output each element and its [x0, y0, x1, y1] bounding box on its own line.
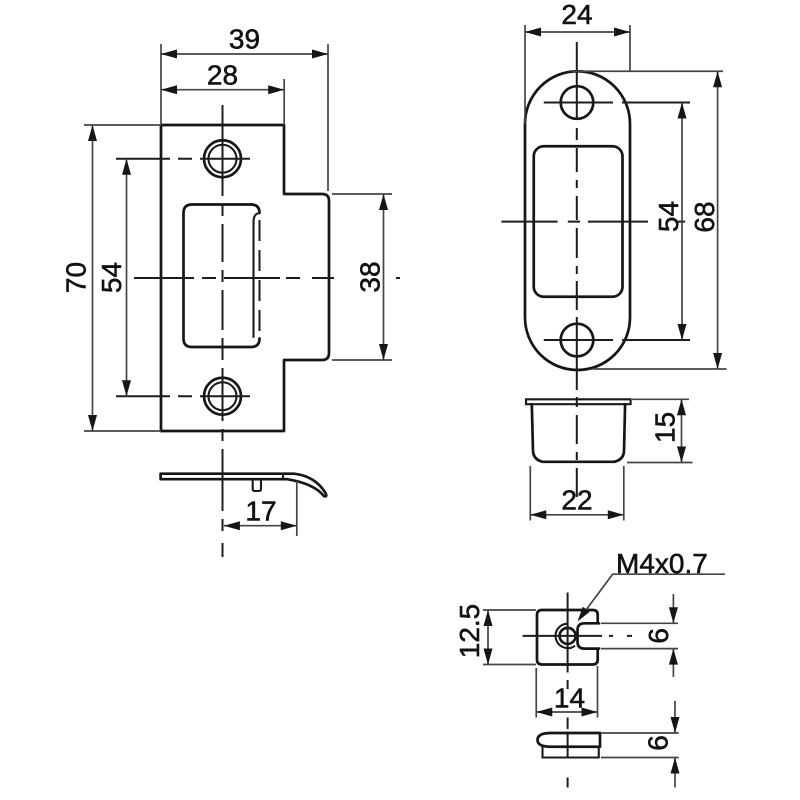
dimension 70 [61, 125, 162, 431]
svg-text:54: 54 [96, 262, 127, 293]
latch cutout rounded rect (solid part) [184, 205, 260, 348]
face plate horizontal centerline [501, 221, 685, 223]
lock box flange (side view) [526, 399, 631, 404]
dimension 39 [161, 24, 328, 192]
svg-text:12.5: 12.5 [454, 604, 485, 659]
face plate top hole crosshair [544, 102, 690, 104]
dimension 28 [161, 60, 284, 126]
dimension 22 [530, 466, 624, 521]
top screw hole outer [204, 140, 241, 177]
latch tab inner line [254, 214, 258, 338]
dimension 24 [525, 0, 630, 124]
svg-text:68: 68 [689, 201, 720, 232]
dimension 15 [627, 399, 693, 462]
nut plate vertical centerline [567, 593, 569, 788]
face plate outline (stadium shape) [525, 71, 630, 370]
M4 thread arc [556, 624, 575, 648]
bend line tick [282, 474, 284, 480]
strike plate outline (front view) [161, 125, 329, 431]
svg-text:70: 70 [61, 262, 92, 293]
top screw hole inner [209, 145, 237, 173]
side view of strike plate with curved lip [161, 474, 327, 497]
bottom screw hole horizontal crosshair [116, 395, 250, 397]
svg-text:38: 38 [355, 261, 386, 292]
square nut plate outline [537, 610, 598, 665]
nut plate horizontal centerline [523, 635, 633, 637]
vertical centerline of plate [222, 105, 224, 557]
M4 tapped hole [560, 628, 576, 644]
svg-text:15: 15 [650, 412, 681, 443]
svg-text:39: 39 [229, 24, 260, 55]
face plate bottom hole [561, 324, 594, 357]
dimension 6 lower (bracket height) [601, 701, 680, 788]
dimension 6 upper (slot height) [601, 594, 678, 677]
svg-text:17: 17 [245, 496, 276, 527]
dimension 14 [536, 666, 597, 718]
face plate top hole [561, 86, 594, 119]
bent tab (side view) [253, 479, 261, 491]
dimension 17 [224, 481, 297, 536]
svg-text:24: 24 [561, 0, 592, 30]
svg-text:14: 14 [554, 683, 585, 714]
lock box body [532, 404, 625, 462]
nut side view folded bracket [538, 733, 601, 747]
svg-text:22: 22 [561, 485, 592, 516]
latch cutout hidden right edge (dashed) [259, 220, 261, 338]
svg-text:28: 28 [207, 60, 238, 91]
bottom screw hole inner [209, 382, 237, 410]
svg-text:6: 6 [643, 628, 674, 644]
dimension 68 [571, 71, 727, 369]
leader line M4x0.7 [578, 548, 726, 622]
svg-text:54: 54 [653, 201, 684, 232]
face plate cutout [534, 146, 623, 297]
face plate vertical centerline [576, 42, 578, 497]
slot in nut plate [578, 623, 600, 648]
face plate bottom hole crosshair [544, 339, 690, 341]
top screw hole horizontal crosshair [116, 158, 250, 160]
bottom screw hole outer [204, 378, 241, 415]
dimension 38 [332, 194, 392, 360]
horizontal centerline of plate [134, 277, 400, 279]
dimension 54 left [96, 159, 131, 397]
svg-text:6: 6 [643, 735, 674, 751]
svg-text:M4x0.7: M4x0.7 [616, 548, 708, 579]
nut side view base strip [543, 747, 599, 758]
dimension 12.5 [454, 604, 536, 665]
dimension 54 right [653, 103, 686, 341]
